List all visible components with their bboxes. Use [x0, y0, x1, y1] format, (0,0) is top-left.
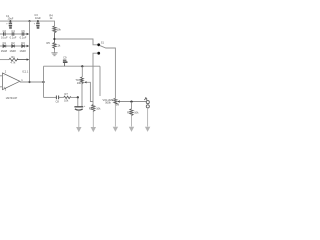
- svg-text:10k: 10k: [64, 99, 69, 103]
- svg-text:10k: 10k: [96, 106, 101, 110]
- svg-text:-: -: [4, 74, 5, 77]
- svg-text:10k: 10k: [134, 111, 139, 115]
- svg-text:C8: C8: [56, 99, 60, 103]
- svg-text:10k: 10k: [77, 81, 82, 85]
- svg-text:10uF: 10uF: [7, 17, 13, 21]
- svg-text:0.1uF: 0.1uF: [20, 35, 27, 39]
- svg-text:1N48: 1N48: [1, 49, 8, 53]
- svg-text:C9: C9: [63, 55, 67, 59]
- svg-text:IC1.1: IC1.1: [22, 70, 29, 74]
- svg-text:C4: C4: [11, 29, 15, 33]
- svg-text:D3: D3: [21, 41, 25, 45]
- svg-text:0.1uF: 0.1uF: [10, 35, 17, 39]
- svg-text:1N48: 1N48: [19, 49, 26, 53]
- svg-text:500k: 500k: [105, 100, 111, 104]
- svg-text:R9: R9: [127, 111, 131, 115]
- svg-text:0.1uF: 0.1uF: [1, 35, 8, 39]
- svg-text:4.7k: 4.7k: [10, 60, 16, 64]
- svg-text:D1: D1: [3, 41, 7, 45]
- svg-text:S1: S1: [101, 41, 105, 45]
- svg-text:10uF: 10uF: [35, 16, 41, 20]
- svg-text:10k: 10k: [57, 28, 62, 32]
- svg-text:R5: R5: [47, 41, 51, 45]
- svg-text:1N48: 1N48: [9, 49, 16, 53]
- svg-text:R1: R1: [11, 55, 15, 59]
- svg-text:LM741CP: LM741CP: [6, 96, 18, 100]
- svg-text:C2: C2: [3, 29, 7, 33]
- svg-text:1M: 1M: [116, 103, 120, 107]
- svg-text:R8: R8: [89, 106, 93, 110]
- svg-text:R7: R7: [65, 92, 69, 96]
- svg-text:D2: D2: [11, 41, 15, 45]
- svg-text:C6: C6: [21, 29, 25, 33]
